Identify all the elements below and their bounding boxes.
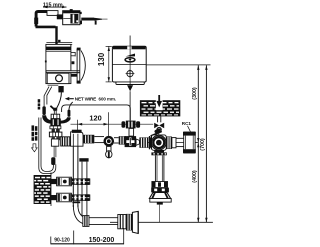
big nut (49, 132, 62, 137)
rotated label B (two lines) (32, 125, 38, 140)
hatched wall block left (34, 173, 51, 207)
svg-text:(300): (300) (192, 87, 198, 100)
coupling before angle stop (119, 136, 126, 144)
right dimension extension from button box (146, 64, 210, 66)
wall pipes vertical left pair (72, 146, 74, 207)
dimension line (300)/(400) (192, 65, 200, 222)
small diagonal tick at valve top-left (50, 106, 55, 111)
vertical extension at ball (107, 112, 109, 136)
middle stop valve assembly (42, 87, 70, 165)
dimension 120 (71, 114, 154, 132)
flow arrow below button box (127, 85, 133, 91)
supply pipe horizontal run to tank (36, 26, 56, 29)
drain bell couplings (118, 211, 138, 233)
tank lid lines (46, 41, 72, 43)
branch coupling to tee (61, 137, 71, 146)
dimension 130 (97, 46, 112, 82)
branch couplings right of tee (83, 135, 94, 144)
branch pipe to ball fitting (94, 136, 104, 138)
hollow down arrow (32, 144, 38, 152)
push button centerline (129, 36, 131, 47)
push button box (112, 46, 146, 84)
white pipe section (47, 11, 58, 16)
hex band (50, 126, 61, 129)
svg-text:(400): (400) (192, 170, 198, 183)
svg-text:130: 130 (97, 52, 106, 66)
dimension line (700) (200, 65, 207, 222)
hose from tank outlet to stop valve (57, 92, 62, 108)
bottom capsule (51, 157, 55, 165)
white cylinder (51, 139, 58, 146)
valve top cap (53, 108, 57, 111)
tank wall flange (71, 48, 85, 84)
floor baseline (110, 221, 213, 223)
hose from right capsule to label (69, 102, 73, 110)
wall pipes vertical right pair (81, 162, 83, 217)
rotated label A (38, 99, 41, 109)
tank inlet vertical pipe (55, 26, 57, 44)
collar (72, 201, 80, 203)
concealed box outline (62, 105, 131, 121)
center body (50, 119, 60, 127)
inlet valve box (63, 9, 80, 25)
sensor wand (81, 18, 107, 25)
T-fitting on supply (122, 121, 141, 136)
arrow into right block (158, 95, 160, 101)
small band (52, 129, 60, 132)
tank outlet nut (58, 86, 63, 92)
RC1 unit (183, 132, 196, 153)
spud pipe down from flush valve (155, 155, 164, 181)
yoke wings (42, 115, 51, 123)
NET WIRE label (65, 97, 116, 102)
pipe to RC1 unit (176, 137, 184, 139)
dimension 115mm label (43, 2, 67, 8)
hatched wall block right (140, 100, 180, 116)
pipe from ball to coupling (114, 137, 119, 139)
coupling on vertical supply (34, 18, 38, 24)
supply stop row 1 (51, 177, 90, 186)
thin stem down (53, 146, 55, 157)
right capsule (68, 110, 71, 117)
valve box right ticks (80, 12, 82, 14)
bottom drain pipe elbow (73, 205, 118, 225)
flush valve body (148, 128, 198, 155)
cistern tank body (45, 44, 80, 85)
union on drain pipe (83, 216, 89, 227)
svg-text:600 mm.: 600 mm. (99, 97, 117, 102)
angle stop valve body (125, 136, 151, 148)
left capsule (42, 106, 45, 115)
svg-text:(700): (700) (200, 138, 206, 151)
supply tee at top of wall pipes (71, 130, 83, 147)
svg-text:90-120: 90-120 (54, 237, 70, 243)
ball fitting (104, 136, 115, 158)
lower cylinder (52, 137, 60, 140)
supply stop row 2 (51, 193, 90, 202)
left feed lines (44, 87, 49, 107)
svg-text:RC1: RC1 (182, 121, 192, 126)
stem below block (157, 116, 159, 122)
valve stem (53, 111, 55, 115)
spud flange bell (149, 182, 171, 223)
svg-text:120: 120 (89, 114, 101, 123)
inlet nut blob (58, 40, 60, 43)
svg-text:150-200: 150-200 (89, 237, 115, 244)
right pair top cap (79, 158, 88, 161)
supply pipe top elbow run (36, 12, 47, 27)
bottom dimensions (51, 228, 124, 244)
svg-text:NET WIRE: NET WIRE (75, 97, 96, 102)
bowtie control valve (151, 123, 165, 136)
inlet valve box left stub (57, 14, 63, 19)
flexible hose loop (39, 118, 56, 174)
stem band (51, 114, 60, 118)
